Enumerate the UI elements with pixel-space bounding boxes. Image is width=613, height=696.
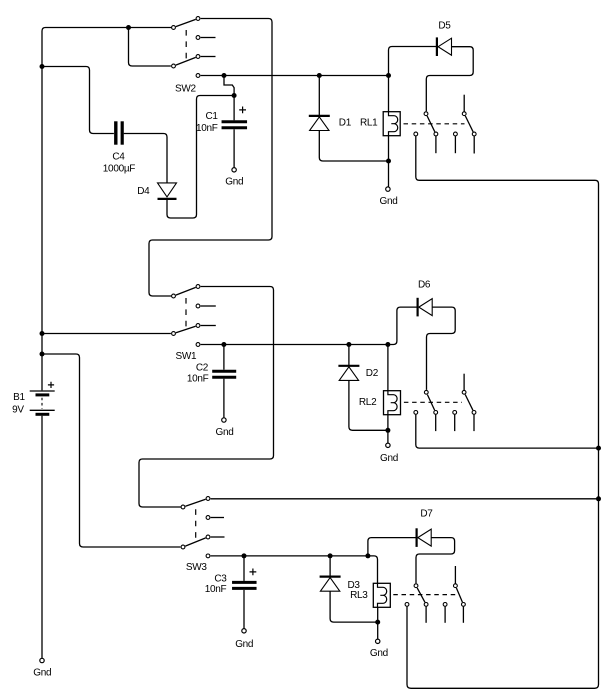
label C1: [206, 111, 219, 122]
ground terminal RL3: [376, 639, 380, 643]
node junction RL1 bottom: [386, 159, 391, 164]
wire RL2 contact 1b stub: [435, 415, 437, 432]
wire RL2 jog to D6: [390, 307, 417, 344]
svg-text:Gnd: Gnd: [216, 427, 234, 438]
relay RL1 contact link: [404, 123, 465, 125]
wire contact 2b stub: [473, 136, 475, 153]
wire RL1 top riser to D5: [389, 47, 437, 112]
svg-text:SW3: SW3: [186, 562, 208, 573]
switch SW2 pole 1: [172, 26, 176, 30]
capacitor C1 plus sign: [239, 107, 246, 114]
label C2: [196, 363, 209, 374]
relay RL3 contact terminal 2a: [443, 603, 447, 607]
wire to SW1 pole 2: [43, 333, 171, 335]
node junction C3 top: [242, 553, 247, 558]
label D3: [348, 580, 361, 591]
label 9V value: [12, 405, 24, 416]
ground terminal battery: [40, 658, 44, 662]
node junction rail RL2 contact: [596, 446, 601, 451]
wire SW3 throw 2b to relay RL3 (coil supply): [211, 555, 368, 557]
wire SW3 throw 1b stub: [211, 517, 224, 519]
node junction top feed: [126, 25, 131, 30]
svg-text:10nF: 10nF: [196, 123, 218, 134]
label Gnd RL3: [370, 648, 388, 659]
ground terminal RL1: [386, 187, 390, 191]
relay RL3 contact pole 2: [454, 584, 458, 588]
relay RL3 coil: [373, 583, 390, 607]
ground terminal RL2: [386, 443, 390, 447]
svg-text:B1: B1: [13, 392, 25, 403]
svg-text:D5: D5: [438, 21, 451, 32]
label SW1: [176, 351, 198, 362]
relay RL1 contact terminal 2b: [472, 132, 476, 136]
node junction battery (SW1 feed): [40, 331, 45, 336]
svg-text:C4: C4: [112, 152, 125, 163]
wire D7 anode loop to contact pole: [416, 538, 455, 584]
relay RL1 contact lever 2: [465, 116, 473, 132]
node junction battery (SW3 feed): [40, 352, 45, 357]
wire C3 bottom lead: [243, 590, 245, 629]
node junction RL3 top: [365, 553, 370, 558]
switch SW2 throw 2a: [196, 55, 200, 59]
wire D2 bottom to RL2 bottom: [349, 380, 388, 430]
capacitor C1: [222, 122, 248, 128]
wire RL2 coil top lead: [387, 345, 389, 391]
relay RL1 coil: [383, 112, 400, 136]
switch SW3 throw 1a: [206, 497, 210, 501]
wire SW1 throw 2b to relay RL2 (coil supply): [201, 344, 388, 346]
capacitor C4: [116, 121, 122, 144]
wire RL2 contact 2a stub: [454, 415, 456, 432]
relay RL1 contact terminal 1b: [434, 132, 438, 136]
wire D1 bottom to RL1 bottom: [319, 131, 388, 162]
wire C2 bottom lead: [223, 379, 225, 418]
diode D5: [437, 37, 452, 56]
wire SW2 throw 1b stub: [201, 37, 216, 39]
svg-text:RL3: RL3: [350, 590, 368, 601]
battery plus sign: [48, 382, 54, 388]
wire RL1 contact pole 2 stub: [463, 95, 465, 112]
wire C1 bottom lead: [233, 129, 235, 167]
svg-text:10nF: 10nF: [205, 584, 227, 595]
wire contact 2a stub: [454, 136, 456, 153]
svg-text:Gnd: Gnd: [33, 668, 51, 679]
node junction rail SW3 throw: [596, 496, 601, 501]
capacitor C3 plus sign: [250, 569, 257, 576]
wire RL2 bottom to ground: [387, 415, 389, 443]
node junction RL2 bottom: [385, 428, 390, 433]
switch SW3 link: [195, 509, 197, 542]
relay RL3 contact terminal 1a: [405, 603, 409, 607]
wire branch to SW2 pole 2: [129, 28, 171, 66]
svg-text:Gnd: Gnd: [225, 177, 243, 188]
label RL2: [359, 397, 377, 408]
node junction C1 top: [232, 93, 237, 98]
svg-text:Gnd: Gnd: [370, 648, 388, 659]
svg-text:RL2: RL2: [359, 397, 377, 408]
switch SW3 lever 2: [185, 538, 205, 546]
switch SW3 pole 2: [181, 545, 185, 549]
label C4: [112, 152, 125, 163]
label C1 value 10nF: [196, 123, 218, 134]
wire D3 bottom to RL3 bottom: [330, 591, 378, 622]
wire SW1 throw 1b stub: [201, 305, 216, 307]
wire SW2 throw 2a stub: [201, 56, 216, 58]
switch SW1 throw 2b: [196, 343, 200, 347]
switch SW2 throw 1a: [196, 17, 200, 21]
wire RL2 contact 2b stub: [473, 415, 475, 432]
wire RL3 contact 2b stub: [462, 607, 464, 623]
relay RL3 contact terminal 1b: [424, 603, 428, 607]
wire contact 1b stub: [435, 136, 437, 153]
wire SW3 throw 2a stub: [211, 536, 225, 538]
wire right rail (RL1 contact to RL3 contact): [407, 136, 599, 688]
diode D7: [417, 528, 432, 547]
wire RL3 riser to D7: [368, 538, 417, 554]
diode D4: [158, 183, 177, 199]
wire RL3 contact 2a stub: [444, 607, 446, 623]
label C3: [214, 574, 227, 585]
relay RL3 contact terminal 2b: [462, 603, 466, 607]
relay RL2 contact lever 1: [427, 395, 434, 411]
node junction RL1 top: [386, 73, 391, 78]
relay RL1 contact pole 1: [424, 112, 428, 116]
label Gnd C2: [216, 427, 234, 438]
wire SW3 throw 1a to right rail: [211, 498, 598, 500]
wire SW1 throw 1a to SW3 pole 1: [139, 287, 274, 508]
label C3 value 10nF: [205, 584, 227, 595]
relay RL1 contact terminal 1a: [414, 132, 418, 136]
switch SW3 pole 1: [181, 505, 185, 509]
label D1: [339, 118, 352, 129]
label RL1: [360, 118, 378, 129]
label B1: [13, 392, 25, 403]
svg-text:C2: C2: [196, 363, 209, 374]
relay RL3 contact link: [393, 594, 457, 596]
relay RL3 contact lever 2: [456, 588, 462, 602]
wire SW2 throw 1a to SW1 pole 1: [149, 19, 272, 297]
svg-text:D6: D6: [418, 280, 431, 291]
wire D5 anode loop to contact pole: [426, 47, 473, 112]
relay RL2 contact link: [404, 401, 462, 403]
ground terminal C3: [242, 629, 246, 633]
relay RL1 contact pole 2: [462, 112, 466, 116]
node junction RL3 bottom: [375, 620, 380, 625]
switch SW2 throw 2b: [196, 74, 200, 78]
svg-text:Gnd: Gnd: [235, 639, 253, 650]
label C2 value 10nF: [187, 374, 209, 385]
diode D6: [418, 298, 433, 317]
diode D1: [309, 76, 330, 131]
ground terminal C1: [232, 168, 236, 172]
label RL3: [350, 590, 368, 601]
svg-text:D1: D1: [339, 118, 352, 129]
switch SW1 lever 1: [176, 287, 196, 295]
wire RL1 bottom to ground: [388, 136, 390, 187]
relay RL2 contact pole 1: [424, 390, 428, 394]
wire RL3 coil jog: [368, 556, 378, 583]
svg-text:D4: D4: [137, 186, 150, 197]
svg-text:1000µF: 1000µF: [103, 164, 136, 175]
node junction C4 feed: [40, 64, 45, 69]
switch SW3 throw 1b: [206, 516, 210, 520]
switch SW2 throw 1b: [196, 36, 200, 40]
wire RL2 contact to right rail: [416, 415, 598, 449]
switch SW1 throw 2a: [196, 324, 200, 328]
relay RL2 contact lever 2: [465, 395, 473, 411]
switch SW1 throw 1a: [196, 285, 200, 289]
label 1000uF value: [103, 164, 136, 175]
switch SW2 lever 1: [176, 19, 196, 26]
node junction D3 anode: [328, 553, 333, 558]
svg-text:D2: D2: [366, 368, 379, 379]
label D7: [420, 509, 433, 520]
label Gnd RL1: [380, 196, 398, 207]
relay RL2 contact terminal 2a: [453, 411, 457, 415]
svg-text:C3: C3: [214, 574, 227, 585]
wire to SW3 pole 2: [43, 354, 181, 547]
wire SW2 throw 2b to relay RL1 (coil supply): [201, 75, 389, 77]
wire C2 top lead: [223, 345, 225, 370]
wire to capacitor C4: [43, 67, 114, 134]
capacitor C2: [212, 371, 236, 377]
switch SW2 lever 2: [176, 57, 196, 65]
wire C3 top lead: [243, 556, 245, 581]
node junction C2 top: [221, 342, 226, 347]
relay RL1 contact terminal 2a: [454, 132, 458, 136]
svg-text:Gnd: Gnd: [380, 453, 398, 464]
wire C1 top lead: [233, 96, 235, 121]
wire D6 anode loop to contact pole: [427, 307, 456, 390]
svg-text:SW1: SW1: [176, 351, 198, 362]
svg-text:Gnd: Gnd: [380, 196, 398, 207]
relay RL2 contact terminal 1b: [434, 411, 438, 415]
label SW2: [175, 84, 197, 95]
label D6: [418, 280, 431, 291]
switch SW3 lever 1: [185, 499, 205, 506]
wire SW1 throw 2a stub: [201, 325, 216, 327]
switch SW3 throw 2a: [206, 535, 210, 539]
label D2: [366, 368, 379, 379]
switch SW2 link: [185, 30, 187, 62]
node junction D2 anode: [346, 342, 351, 347]
relay RL2 contact pole 2: [462, 390, 466, 394]
switch SW3 throw 2b: [206, 554, 210, 558]
label Gnd C1: [225, 177, 243, 188]
label Gnd RL2: [380, 453, 398, 464]
label D4: [137, 186, 150, 197]
relay RL3 contact pole 1: [414, 584, 418, 588]
node junction C1 tap: [222, 73, 227, 78]
relay RL2 coil: [384, 391, 401, 415]
ground terminal C2: [222, 418, 226, 422]
wire RL3 contact pole 2 stub: [454, 566, 456, 584]
wire RL3 bottom to ground: [377, 607, 379, 639]
node junction D1 anode: [317, 73, 322, 78]
switch SW1 throw 1b: [196, 304, 200, 308]
label SW3: [186, 562, 208, 573]
label Gnd battery: [33, 668, 51, 679]
diode D2: [338, 345, 359, 381]
svg-text:SW2: SW2: [175, 84, 197, 95]
switch SW1 pole 1: [172, 294, 176, 298]
wire battery to ground: [41, 416, 43, 658]
switch SW2 pole 2: [172, 64, 176, 68]
switch SW1 pole 2: [172, 332, 176, 336]
wire jog to C1: [224, 76, 234, 95]
wire RL3 contact 1b stub: [425, 607, 427, 623]
wire left rail top from SW2 to battery: [42, 28, 171, 391]
label Gnd C3: [235, 639, 253, 650]
capacitor C3: [232, 582, 256, 588]
svg-text:10nF: 10nF: [187, 374, 209, 385]
switch SW1 link: [185, 298, 187, 331]
switch SW1 lever 2: [176, 326, 196, 332]
wire RL2 contact pole 2 stub: [463, 374, 465, 390]
wire C4 to diode D4: [124, 134, 167, 183]
label D5: [438, 21, 451, 32]
battery B1: [30, 391, 55, 414]
svg-text:D7: D7: [420, 509, 433, 520]
svg-text:9V: 9V: [12, 405, 24, 416]
node junction RL2 top: [385, 342, 390, 347]
wire D4 cathode to node C1: [167, 96, 233, 219]
relay RL1 contact lever 1: [427, 116, 435, 132]
svg-text:RL1: RL1: [360, 118, 378, 129]
diode D3: [320, 556, 341, 591]
svg-text:C1: C1: [206, 111, 219, 122]
relay RL3 contact lever 1: [417, 588, 425, 602]
relay RL2 contact terminal 1a: [414, 411, 418, 415]
relay RL2 contact terminal 2b: [472, 411, 476, 415]
